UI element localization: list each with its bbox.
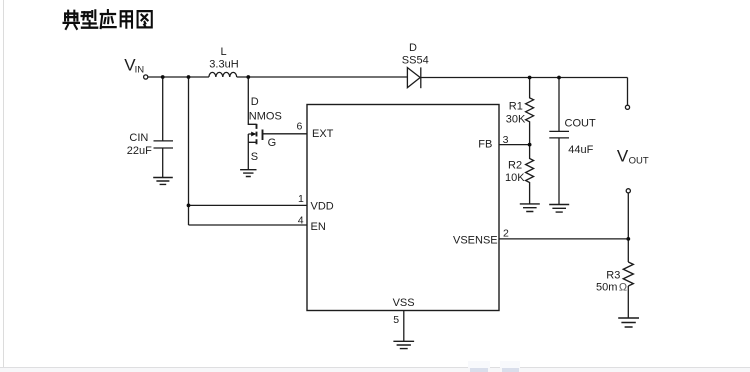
svg-text:50mΩ: 50mΩ xyxy=(596,282,627,294)
svg-text:R1: R1 xyxy=(509,100,523,112)
svg-text:3.3uH: 3.3uH xyxy=(209,58,238,70)
svg-text:S: S xyxy=(251,151,258,163)
svg-text:CIN: CIN xyxy=(129,132,148,144)
svg-text:V: V xyxy=(617,147,629,166)
svg-text:4: 4 xyxy=(298,215,304,227)
svg-text:D: D xyxy=(409,42,417,54)
svg-text:G: G xyxy=(268,137,277,149)
svg-text:5: 5 xyxy=(393,314,399,326)
svg-text:IN: IN xyxy=(135,65,145,76)
svg-text:NMOS: NMOS xyxy=(249,111,282,123)
svg-text:COUT: COUT xyxy=(565,117,596,129)
svg-text:3: 3 xyxy=(503,134,509,146)
svg-text:R2: R2 xyxy=(508,160,522,172)
svg-text:D: D xyxy=(251,96,259,108)
svg-text:SS54: SS54 xyxy=(402,54,429,66)
svg-text:10K: 10K xyxy=(505,172,525,184)
svg-text:VSS: VSS xyxy=(393,297,415,309)
svg-text:44uF: 44uF xyxy=(568,144,593,156)
svg-text:R3: R3 xyxy=(606,270,620,282)
svg-text:EXT: EXT xyxy=(312,128,334,140)
svg-text:1: 1 xyxy=(298,193,304,205)
svg-text:22uF: 22uF xyxy=(127,145,152,157)
svg-text:VDD: VDD xyxy=(311,201,334,213)
svg-text:OUT: OUT xyxy=(629,156,649,167)
svg-text:2: 2 xyxy=(503,227,509,239)
svg-text:FB: FB xyxy=(478,139,492,151)
svg-text:L: L xyxy=(221,46,227,58)
svg-text:6: 6 xyxy=(297,121,303,133)
svg-text:EN: EN xyxy=(311,221,326,233)
svg-text:30K: 30K xyxy=(506,114,526,126)
svg-text:VSENSE: VSENSE xyxy=(453,235,498,247)
